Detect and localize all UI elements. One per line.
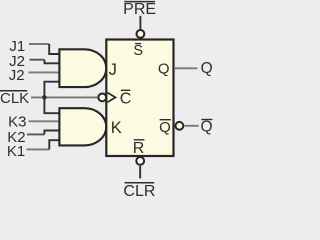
svg-text:Q: Q — [159, 119, 171, 136]
clock edge triangle — [108, 93, 116, 103]
wire K2 step up into gate pin — [44, 131, 59, 135]
svg-text:R: R — [133, 140, 145, 157]
svg-text:Q: Q — [200, 118, 212, 135]
wire Q output — [175, 67, 198, 69]
wire K3 straight into gate pin — [29, 120, 60, 122]
wire J2 horizontal from label — [30, 59, 45, 61]
svg-text:K: K — [111, 119, 122, 137]
wire J2 (third) straight into gate pin 3 — [29, 71, 60, 73]
wire PRE vertical — [139, 16, 141, 30]
svg-text:J: J — [109, 61, 117, 79]
bubble C input (left) — [98, 94, 106, 102]
wire J1 horizontal from label — [29, 43, 49, 45]
svg-text:CLK: CLK — [0, 90, 29, 107]
svg-text:K1: K1 — [7, 143, 25, 160]
wire CLK horizontal to C bubble — [31, 96, 98, 98]
wire K2 horizontal from label — [27, 133, 44, 135]
svg-text:Q: Q — [158, 60, 170, 77]
wire J2 step down into gate pin 2 — [45, 60, 60, 64]
svg-text:C: C — [120, 90, 132, 107]
svg-text:PRE: PRE — [123, 1, 156, 18]
wire K1 step up into gate pin — [49, 140, 59, 149]
flip-flop body — [106, 40, 173, 157]
bubble CLR (bottom) — [136, 157, 144, 165]
wire J1 step down into gate pin 1 — [49, 44, 59, 54]
svg-text:CLR: CLR — [123, 183, 155, 196]
wire CLR vertical — [139, 166, 141, 179]
junction dot on CLK — [42, 95, 47, 100]
wire CLK branch vertical with turns into both gate clock pins — [44, 82, 59, 114]
AND gate top (J side) — [59, 49, 106, 87]
wire K1 horizontal from label — [27, 148, 50, 150]
svg-text:S: S — [133, 43, 143, 59]
bubble Q-bar output (right) — [176, 122, 184, 130]
AND gate bottom (K side) — [59, 108, 106, 145]
svg-text:J2: J2 — [9, 67, 25, 84]
wire Q-bar output — [185, 125, 199, 127]
bubble PRE (top) — [137, 30, 145, 38]
svg-text:Q: Q — [201, 60, 213, 77]
